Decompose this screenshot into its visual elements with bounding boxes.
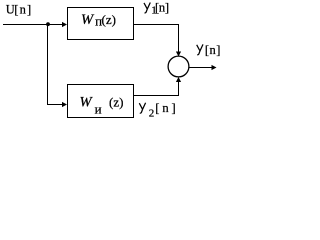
svg-text:[n]: [n] (155, 1, 169, 15)
svg-text:W: W (81, 12, 95, 28)
svg-text:[n]: [n] (205, 43, 221, 57)
svg-text:2: 2 (149, 108, 155, 120)
svg-text:(z): (z) (102, 12, 116, 27)
svg-text:W: W (80, 95, 94, 111)
svg-text:и: и (95, 102, 102, 117)
svg-text:(z): (z) (109, 95, 123, 110)
svg-text:[n]: [n] (155, 101, 176, 115)
svg-text:[n]: [n] (14, 2, 31, 16)
